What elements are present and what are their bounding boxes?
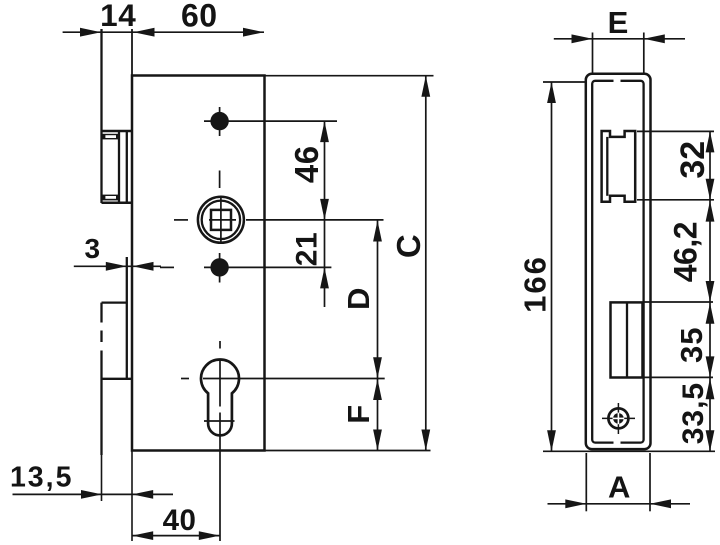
arrow 3 right: [133, 262, 154, 271]
top bracket box top edge: [102, 130, 133, 133]
arrow 33,5 bottom: [706, 430, 715, 451]
chain dimension line: [709, 131, 711, 451]
follower outer circle: [198, 197, 244, 243]
faceplate inner edge (3mm wall) upper segment: [126, 131, 128, 203]
dimension line A: [548, 503, 691, 505]
svg-text:A: A: [608, 470, 631, 505]
dimension line 3: [74, 265, 161, 267]
screw hole crosshair horizontal: [602, 417, 635, 419]
dimension line C: [425, 76, 427, 451]
arrow 3 left: [106, 262, 127, 271]
svg-text:46: 46: [288, 145, 325, 183]
inner outline bottom gap: [614, 440, 621, 448]
arrow 46,2 bottom: [706, 281, 715, 302]
svg-text:32: 32: [674, 141, 712, 179]
arrow 46 bottom: [320, 199, 329, 220]
screw hole outer circle: [608, 408, 628, 428]
arrow 32 top: [706, 131, 715, 152]
hook bolt pocket inner vertical: [606, 137, 608, 196]
follower centerline dash left: [174, 219, 188, 221]
arrow E left: [572, 34, 593, 43]
cylinder centerline extension down to 40 dim: [219, 437, 221, 542]
svg-text:E: E: [608, 5, 629, 40]
cylinder crosshair vertical upper: [219, 359, 221, 407]
E extension left: [592, 33, 594, 74]
svg-text:60: 60: [181, 0, 218, 34]
dimension line 13,5: [13, 493, 174, 495]
arrow 46,2 top: [706, 201, 715, 222]
screw slot cross white: [613, 417, 625, 419]
cylinder crosshair vertical lower: [219, 413, 221, 435]
svg-text:33,5: 33,5: [677, 382, 710, 444]
dimension line 46/21: [324, 121, 326, 307]
svg-text:46,2: 46,2: [668, 222, 704, 282]
lower hole centerline + 21 extension: [204, 266, 331, 268]
top bracket lower clip bar: [102, 195, 120, 201]
svg-text:21: 21: [291, 232, 324, 266]
top bracket upper clip bar: [102, 134, 120, 140]
arrow F top: [373, 379, 382, 400]
svg-text:F: F: [341, 404, 376, 423]
arrow 166 bottom: [547, 430, 556, 451]
chain extension 32 bottom: [637, 199, 714, 201]
dimension line E: [554, 38, 685, 40]
A extension right: [649, 453, 651, 511]
arrow E right: [644, 34, 665, 43]
svg-text:35: 35: [674, 327, 709, 363]
faceplate outer outline: [586, 74, 651, 449]
E extension right: [643, 33, 645, 74]
arrow 13,5 left: [81, 490, 102, 499]
arrow 40 right: [199, 531, 220, 540]
svg-text:14: 14: [100, 0, 136, 33]
arrow 40 left: [132, 531, 153, 540]
follower crosshair horizontal: [209, 219, 236, 221]
euro profile cylinder hole: [201, 359, 239, 435]
faceplate inner outline: [592, 81, 643, 443]
arrow F bottom: [373, 430, 382, 451]
case bottom extension line to C/F: [265, 450, 431, 452]
upper hole centerline + 46 extension: [204, 120, 337, 122]
arrow C bottom: [421, 430, 430, 451]
arrow D bottom: [373, 357, 382, 378]
follower crosshair vertical: [220, 197, 222, 243]
dimension line D/F: [377, 221, 379, 451]
lower fixing hole (dot): [210, 258, 228, 276]
chain extension 46,2 bottom: [643, 301, 714, 303]
lock case outline: [132, 76, 265, 451]
svg-text:13,5: 13,5: [10, 462, 73, 494]
166 top extension: [543, 81, 587, 83]
chain extension 35 bottom: [643, 376, 714, 378]
follower square spindle hole: [211, 210, 231, 230]
arrow A left: [565, 499, 586, 508]
upper fixing hole (dot): [210, 112, 228, 130]
svg-text:C: C: [390, 234, 427, 258]
dimension line 14/60: [63, 31, 264, 33]
A extension left: [585, 453, 587, 511]
faceplate outer edge (left vertical): [100, 29, 102, 203]
arrow 14 right / 60 left: [134, 28, 155, 37]
arrow 14 left: [80, 28, 101, 37]
upper hole crosshair vertical: [219, 107, 221, 136]
dimension line 166: [551, 82, 553, 451]
arrow 60 right: [243, 28, 264, 37]
follower centerline extension right (46/21/D): [246, 219, 384, 221]
top bracket box bottom edge: [102, 202, 133, 205]
cylinder centerline dash above: [219, 341, 221, 349]
bolt slot: [611, 302, 643, 377]
cylinder centerline + D/F extension: [203, 378, 385, 380]
arrow 46 top: [320, 121, 329, 142]
centerline dash below upper hole: [219, 171, 221, 189]
lower bracket bottom edge: [102, 378, 133, 380]
inner outline top gap: [614, 77, 621, 85]
case top extension line to C: [265, 75, 434, 77]
svg-text:3: 3: [84, 233, 100, 264]
hook bolt pocket outline: [602, 131, 636, 202]
chain extension 32 top: [637, 130, 714, 132]
cylinder centerline dash left: [181, 378, 189, 380]
arrow 32 bottom: [706, 179, 715, 200]
case left edge lower extension (13,5 / 40 dims): [131, 451, 133, 542]
faceplate outer edge lower segments with dash gap: [100, 303, 102, 323]
arrow A right: [650, 499, 671, 508]
screw hole inner disc: [613, 413, 624, 424]
svg-text:D: D: [341, 287, 376, 310]
arrow 21 bottom: [320, 267, 329, 288]
bottom extension line (166/A/33,5): [543, 450, 715, 452]
lower hole centerline dash left: [160, 266, 174, 268]
arrow 33,5 top: [706, 378, 715, 399]
bolt slot middle line: [626, 302, 628, 377]
dimension line 40: [132, 535, 220, 537]
arrow 13,5 right: [132, 490, 153, 499]
arrow 35 top: [706, 303, 715, 324]
lower bracket top edge: [102, 301, 127, 303]
follower inner circle: [202, 201, 240, 239]
screw hole crosshair vertical: [617, 403, 619, 434]
top bracket inner vertical: [118, 131, 120, 203]
cylinder lower lobe crosshair: [204, 420, 235, 422]
svg-text:166: 166: [518, 255, 553, 313]
svg-text:40: 40: [163, 504, 197, 537]
lower hole crosshair vertical: [219, 253, 221, 283]
arrow C top: [421, 76, 430, 97]
case left edge upper extension (14 dim): [131, 29, 133, 76]
arrow 35 bottom: [706, 356, 715, 377]
faceplate extension line down to 13,5 dim: [101, 455, 103, 501]
arrow D top: [373, 221, 382, 242]
faceplate inner edge (3mm wall) lower segment: [126, 257, 128, 379]
arrow 166 top: [547, 82, 556, 103]
